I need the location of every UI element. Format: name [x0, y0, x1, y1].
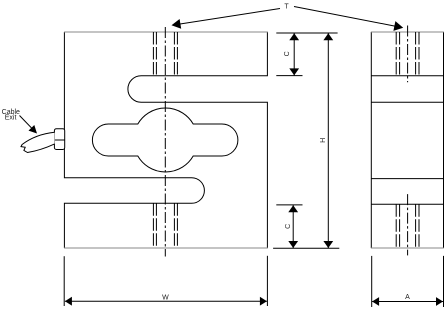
svg-text:Exit: Exit: [5, 115, 17, 122]
bottom extension line shared by C and H: [273, 247, 339, 249]
dimension W line: [65, 300, 267, 302]
svg-text:C: C: [284, 51, 291, 56]
side view bottom centerline: [407, 194, 409, 255]
dimension C (upper) line: [293, 33, 295, 75]
side view top threaded hole hidden lines: [396, 32, 419, 76]
T arrow to front view: [176, 9, 280, 25]
load cell body (front view) right outline with upper slot: [128, 32, 268, 248]
T arrow to side view: [294, 7, 398, 27]
dimension C (lower) extension line: [276, 204, 302, 206]
cable gland fitting: [54, 129, 64, 150]
dimension W extension lines: [63, 256, 65, 306]
vertical centerline (front view): [164, 27, 166, 257]
dimension C (upper) extension lines: [276, 32, 337, 34]
cable exit arrow: [20, 116, 34, 130]
central cutout (circle + side slots): [92, 108, 238, 172]
svg-text:H: H: [320, 138, 327, 143]
svg-text:W: W: [162, 295, 169, 302]
svg-text:T: T: [284, 3, 289, 10]
body bottom edge (front view): [64, 247, 268, 249]
body top edge (front view): [64, 31, 268, 33]
svg-text:A: A: [405, 294, 410, 301]
dimension A line: [372, 301, 443, 303]
svg-text:C: C: [285, 224, 292, 229]
cable: [21, 132, 55, 152]
side view body: [370, 32, 372, 248]
dimension C (lower) line: [292, 205, 294, 248]
load cell body (front view) left outline with lower slot: [64, 32, 204, 248]
bottom threaded hole hidden lines (front view): [153, 203, 177, 248]
side view slot edge lines: [371, 76, 443, 205]
top threaded hole hidden lines (front view): [153, 32, 177, 76]
dimension H line: [327, 33, 329, 248]
side view bottom threaded hole hidden lines: [396, 204, 419, 248]
side view top centerline: [407, 26, 409, 83]
dimension A extension lines: [371, 256, 373, 307]
